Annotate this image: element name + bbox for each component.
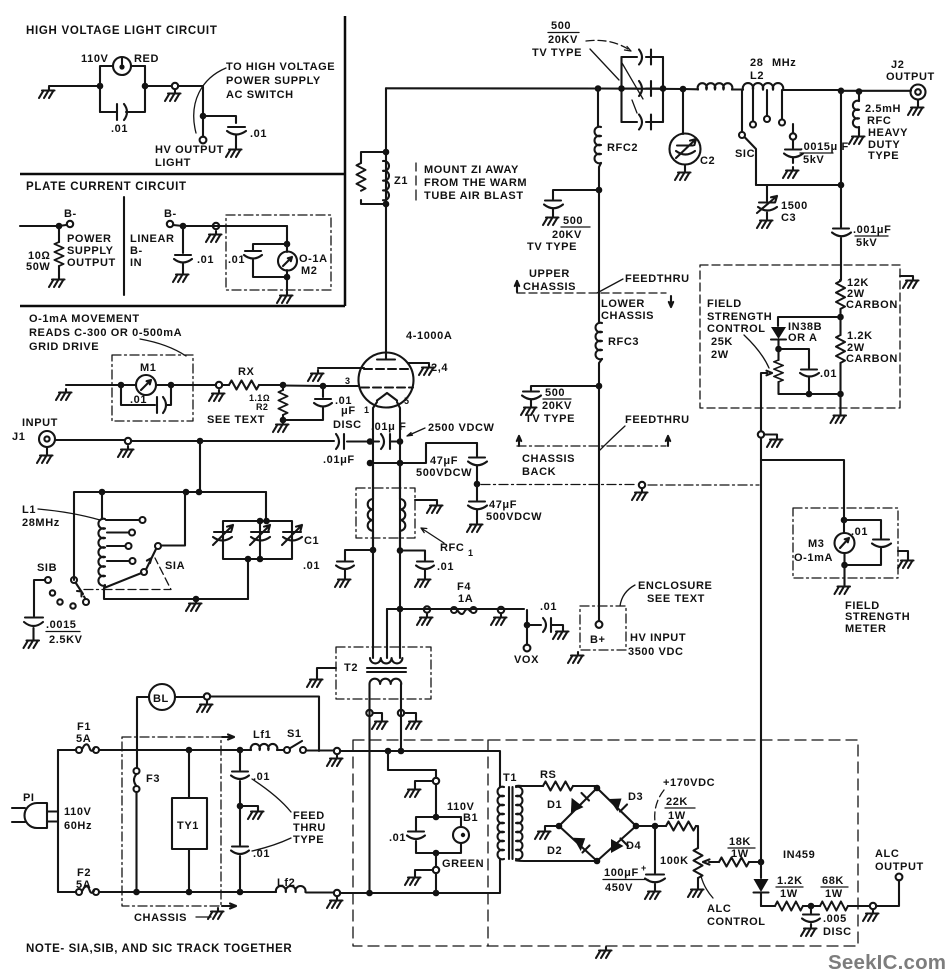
capacitor .01 (filament bypass right) <box>400 551 454 577</box>
node <box>397 460 404 467</box>
label LINEAR B- IN <box>130 233 175 269</box>
svg-text:100K: 100K <box>660 855 689 867</box>
node <box>118 382 125 389</box>
node bridge top <box>594 785 601 792</box>
wire <box>286 226 288 244</box>
svg-text:1: 1 <box>468 548 473 558</box>
svg-text:25K: 25K <box>711 336 733 348</box>
ground <box>596 947 612 958</box>
svg-text:Z1: Z1 <box>394 175 408 187</box>
wire <box>49 85 100 87</box>
svg-text:UPPER: UPPER <box>529 268 570 280</box>
ground <box>197 701 213 712</box>
svg-text:R2: R2 <box>256 402 268 412</box>
meter M1 <box>121 362 171 395</box>
svg-text:TV TYPE: TV TYPE <box>525 413 575 425</box>
ground <box>467 521 483 532</box>
feedthru terminal <box>415 778 439 786</box>
svg-text:FEEDTHRU: FEEDTHRU <box>625 273 690 285</box>
capacitor .01 (HV output) <box>227 127 267 146</box>
ground <box>327 755 343 766</box>
ground <box>173 271 189 282</box>
chassis-back boundary (dash-dot) <box>481 484 759 487</box>
svg-text:GRID DRIVE: GRID DRIVE <box>29 341 99 353</box>
field strength control box (dashed) <box>700 265 900 408</box>
capacitor .01 feedthru lower <box>231 806 270 892</box>
node <box>775 346 782 353</box>
ground <box>568 652 584 663</box>
power supply enclosure (dashed box) <box>353 740 858 946</box>
svg-text:OUTPUT: OUTPUT <box>67 257 116 269</box>
lamp B1 110V GREEN <box>436 801 484 870</box>
svg-text:4-1000A: 4-1000A <box>406 330 452 342</box>
svg-text:METER: METER <box>845 623 887 635</box>
wire to feedthru <box>145 85 171 87</box>
svg-text:B1: B1 <box>463 812 478 824</box>
capacitor .01 (meter shunt) <box>228 244 287 277</box>
ground <box>675 169 691 180</box>
node <box>142 83 149 90</box>
ground <box>801 925 817 936</box>
svg-text:1A: 1A <box>458 593 473 605</box>
svg-text:60Hz: 60Hz <box>64 820 92 832</box>
svg-text:SEE TEXT: SEE TEXT <box>647 593 705 605</box>
svg-text:CONTROL: CONTROL <box>707 916 766 928</box>
wire cathode return <box>370 443 477 463</box>
capacitor .0015 2.5KV <box>24 580 83 646</box>
ground <box>277 292 293 303</box>
svg-text:5kV: 5kV <box>856 237 877 249</box>
ground <box>419 364 435 375</box>
capacitor .005 DISC <box>802 906 852 938</box>
terminal VOX <box>514 625 539 666</box>
svg-text:5A: 5A <box>76 733 91 745</box>
svg-text:L1: L1 <box>22 504 36 516</box>
svg-text:VOX: VOX <box>514 654 539 666</box>
wire lamp branch <box>388 751 436 778</box>
svg-text:C2: C2 <box>700 155 715 167</box>
ground <box>307 676 323 687</box>
circuit breaker F3 <box>134 768 161 892</box>
svg-text:2W: 2W <box>711 349 729 361</box>
node <box>99 489 106 496</box>
svg-text:B+: B+ <box>590 634 606 646</box>
ground <box>165 90 181 101</box>
node <box>193 596 200 603</box>
ground <box>908 104 924 115</box>
switch S1A <box>104 492 185 590</box>
svg-text:C1: C1 <box>304 535 319 547</box>
ground <box>417 614 433 625</box>
node <box>320 383 327 390</box>
wire tank feed <box>74 492 266 580</box>
label FIELD STRENGTH CONTROL 25K 2W <box>707 298 772 368</box>
inductor L1 28MHz <box>22 492 105 593</box>
svg-text:.005: .005 <box>823 913 847 925</box>
terminal B+ <box>590 607 606 646</box>
wire filament lead 5 <box>397 402 400 550</box>
svg-text:SIA: SIA <box>165 560 185 572</box>
svg-text:FROM THE WARM: FROM THE WARM <box>424 177 527 189</box>
svg-text:GREEN: GREEN <box>442 858 484 870</box>
diode D3 <box>609 791 643 812</box>
svg-text:CHASSIS: CHASSIS <box>522 453 575 465</box>
T2 primary winding <box>370 679 402 710</box>
svg-text:μF: μF <box>341 405 356 417</box>
wire to field strength meter <box>761 438 844 517</box>
svg-text:Lf2: Lf2 <box>277 877 295 889</box>
wire RFC2-RFC3 column <box>598 190 600 323</box>
node <box>838 182 845 189</box>
wire RFC1 shield ground <box>415 500 437 502</box>
capacitor .01 feedthru upper <box>231 750 270 806</box>
note 0-1mA MOVEMENT <box>29 313 186 356</box>
svg-text:110V: 110V <box>81 53 109 65</box>
svg-text:20KV: 20KV <box>552 229 582 241</box>
svg-text:20KV: 20KV <box>542 400 572 412</box>
svg-text:F3: F3 <box>146 773 160 785</box>
svg-text:5: 5 <box>404 396 409 406</box>
wire <box>203 116 236 123</box>
svg-text:OR A: OR A <box>788 332 818 344</box>
svg-text:1500: 1500 <box>781 200 808 212</box>
feedthru terminal <box>213 223 219 229</box>
svg-text:STRENGTH: STRENGTH <box>707 311 772 323</box>
svg-text:2500 VDCW: 2500 VDCW <box>428 422 495 434</box>
capacitor .001uF 5kV <box>832 185 891 280</box>
svg-text:BL: BL <box>153 693 169 705</box>
svg-text:INPUT: INPUT <box>22 417 58 429</box>
svg-text:1.2K: 1.2K <box>847 330 873 342</box>
rf choke RFC3 <box>596 323 640 386</box>
node <box>398 748 405 755</box>
switch S1 <box>284 728 334 753</box>
svg-text:TY1: TY1 <box>177 820 199 832</box>
svg-text:THRU: THRU <box>293 822 326 834</box>
line filter Lf1 <box>240 729 284 750</box>
node <box>97 83 104 90</box>
svg-text:.001μF: .001μF <box>853 224 891 236</box>
svg-text:RFC3: RFC3 <box>608 336 639 348</box>
svg-text:CARBON: CARBON <box>846 299 898 311</box>
capacitor .01 (lamp bypass) <box>389 817 436 853</box>
variable capacitor bank C1 <box>213 492 319 599</box>
diode 1N459 <box>754 849 816 906</box>
svg-text:RFC2: RFC2 <box>607 142 638 154</box>
svg-text:.01: .01 <box>389 832 406 844</box>
ground <box>543 214 559 225</box>
capacitor .01 (filament bypass left) <box>303 550 373 576</box>
wire BL to line <box>175 697 319 752</box>
rf choke RFC2 <box>595 85 639 190</box>
node <box>680 86 687 93</box>
ground <box>783 167 799 178</box>
capacitor 47uF 500VDCW lower <box>468 484 542 523</box>
svg-text:LINEAR: LINEAR <box>130 233 175 245</box>
svg-text:O-1mA MOVEMENT: O-1mA MOVEMENT <box>29 313 140 325</box>
wire <box>183 225 287 227</box>
potentiometer 100K ALC control <box>660 842 719 898</box>
svg-text:100μF: 100μF <box>604 867 639 879</box>
connector J2 OUTPUT <box>886 59 935 104</box>
ground <box>208 908 224 919</box>
label FIELD STRENGTH METER <box>845 600 910 635</box>
node bridge left <box>556 823 563 830</box>
svg-text:D4: D4 <box>626 840 642 852</box>
svg-text:.01: .01 <box>303 560 320 572</box>
svg-text:HIGH VOLTAGE LIGHT CIRCUIT: HIGH VOLTAGE LIGHT CIRCUIT <box>26 25 218 37</box>
svg-text:+170VDC: +170VDC <box>663 777 715 789</box>
wire line live <box>340 751 500 786</box>
label HV INPUT 3500VDC <box>628 632 686 658</box>
svg-text:22K: 22K <box>666 796 688 808</box>
svg-text:F4: F4 <box>457 581 471 593</box>
svg-text:IN459: IN459 <box>783 849 815 861</box>
svg-text:B-: B- <box>130 245 143 257</box>
svg-text:S1: S1 <box>287 728 302 740</box>
ground <box>900 276 919 288</box>
svg-text:110V: 110V <box>64 806 92 818</box>
HV output light terminal <box>155 137 224 169</box>
node <box>808 903 815 910</box>
node <box>397 438 404 445</box>
node <box>197 438 204 445</box>
svg-text:F2: F2 <box>77 867 91 879</box>
resistor 68K 1W <box>811 875 869 911</box>
wire pin3 screen to ground <box>318 367 364 369</box>
ground <box>688 886 704 897</box>
svg-text:18K: 18K <box>729 836 751 848</box>
wire input line <box>55 440 200 441</box>
wire <box>843 565 845 583</box>
svg-text:.01: .01 <box>111 123 128 135</box>
svg-text:TV TYPE: TV TYPE <box>532 47 582 59</box>
wire filament lead 1 <box>373 402 377 550</box>
ground M3 shield <box>898 551 914 568</box>
svg-text:28MHz: 28MHz <box>22 517 60 529</box>
frame: control-circuits panel border <box>20 16 345 306</box>
ground <box>49 276 65 287</box>
svg-text:CHASSIS: CHASSIS <box>601 310 654 322</box>
T2 secondary winding <box>370 550 402 663</box>
svg-text:CARBON: CARBON <box>846 353 898 365</box>
resistor 18K 1W <box>719 836 761 867</box>
svg-text:3: 3 <box>345 376 350 386</box>
node <box>596 187 603 194</box>
ground <box>186 600 202 611</box>
svg-text:LIGHT: LIGHT <box>155 157 191 169</box>
svg-text:POWER: POWER <box>67 233 112 245</box>
svg-text:J1: J1 <box>12 431 25 443</box>
svg-text:ALC: ALC <box>875 848 899 860</box>
svg-text:3500 VDC: 3500 VDC <box>628 646 684 658</box>
wire line neutral <box>340 860 500 893</box>
svg-text:500: 500 <box>563 215 583 227</box>
node <box>186 889 193 896</box>
svg-text:.01: .01 <box>820 368 837 380</box>
chassis-back boundary line (dash-dot) <box>517 436 670 446</box>
svg-text:500VDCW: 500VDCW <box>486 511 542 523</box>
resistor 10 ohm 50W <box>26 226 64 276</box>
svg-text:TUBE AIR BLAST: TUBE AIR BLAST <box>424 190 524 202</box>
terminal ALC OUTPUT <box>875 848 924 906</box>
svg-text:CHASSIS: CHASSIS <box>134 912 187 924</box>
label ALC CONTROL <box>707 903 766 928</box>
svg-text:PI: PI <box>23 792 35 804</box>
node <box>183 489 190 496</box>
terminal B- <box>59 208 77 227</box>
capacitor .01 (M1 shunt) <box>121 385 171 413</box>
svg-text:D1: D1 <box>547 799 562 811</box>
wire center tap to fuse <box>387 609 527 625</box>
ground <box>849 133 865 144</box>
meter box M2 (dashed) <box>226 215 331 290</box>
node <box>652 823 659 830</box>
ground <box>863 910 879 921</box>
svg-text:1W: 1W <box>731 848 749 860</box>
ground <box>835 583 851 594</box>
ground <box>240 806 264 819</box>
ground <box>521 404 537 415</box>
wire <box>178 86 203 137</box>
terminal B- linear <box>164 208 183 227</box>
resistor RX <box>222 366 283 390</box>
node <box>200 113 207 120</box>
capacitor 47uF 500VDCW upper <box>416 443 487 484</box>
wire plate lead <box>385 88 387 352</box>
filament transformer T2 (dashed box) <box>336 647 431 699</box>
svg-text:TYPE: TYPE <box>868 150 899 162</box>
ground <box>415 576 431 587</box>
wire grid line <box>283 384 359 387</box>
svg-text:1W: 1W <box>780 888 798 900</box>
tube 4-1000A <box>345 330 452 415</box>
label FEEDTHRU lower <box>600 414 690 450</box>
svg-text:OUTPUT: OUTPUT <box>875 861 924 873</box>
svg-text:M1: M1 <box>140 362 156 374</box>
svg-text:5A: 5A <box>76 879 91 891</box>
svg-text:50W: 50W <box>26 261 50 273</box>
node <box>433 850 440 857</box>
resistor 22K 1W <box>665 796 698 842</box>
svg-text:1.2K: 1.2K <box>777 875 803 887</box>
ground <box>308 370 324 381</box>
node <box>280 382 287 389</box>
svg-text:.01: .01 <box>130 394 147 406</box>
feedthru terminal <box>334 748 340 754</box>
node <box>280 417 287 424</box>
feedthru terminal <box>415 867 439 874</box>
node <box>524 622 531 629</box>
ground <box>273 421 289 432</box>
transformer T1 <box>498 772 597 861</box>
svg-text:SIC: SIC <box>735 148 755 160</box>
ground <box>553 628 569 639</box>
node <box>56 223 63 230</box>
coil RFC1 left winding <box>368 463 373 550</box>
wire T2 shield ground <box>317 668 336 676</box>
svg-text:BACK: BACK <box>522 466 556 478</box>
svg-text:RED: RED <box>134 53 159 65</box>
node <box>433 890 440 897</box>
fuse F4 1A <box>451 581 477 614</box>
diode 1N38B <box>771 317 841 349</box>
label FEED THRU TYPE <box>252 779 326 851</box>
resistor 12K 2W carbon <box>836 277 898 317</box>
label +170VDC <box>655 777 716 822</box>
ground <box>39 87 55 98</box>
wire <box>435 873 437 893</box>
capacitor bank 500 20KV (3x plate tuning) <box>622 50 664 130</box>
svg-text:.01: .01 <box>197 254 214 266</box>
capacitor 500 20KV TV TYPE (plate blocking mid) <box>527 190 599 253</box>
node <box>186 747 193 754</box>
node <box>856 88 863 95</box>
ground <box>767 436 783 447</box>
rf choke RFC1 (dashed box) <box>356 488 415 538</box>
node <box>433 814 440 821</box>
svg-text:D3: D3 <box>628 791 643 803</box>
meter box M1 (dashed) <box>112 355 193 421</box>
rf choke 2.5mH heavy duty <box>853 92 908 163</box>
node <box>841 517 848 524</box>
capacitor .01uF 2500VDCW (filament coupling) <box>370 421 495 449</box>
node <box>366 890 373 897</box>
svg-text:OUTPUT: OUTPUT <box>886 71 935 83</box>
node <box>758 859 765 866</box>
ground <box>56 389 72 400</box>
svg-text:MHz: MHz <box>772 57 796 69</box>
svg-text:J2: J2 <box>891 59 904 71</box>
svg-text:.01: .01 <box>250 128 267 140</box>
svg-text:RFC: RFC <box>440 542 464 554</box>
wire ALC sense line <box>760 460 762 862</box>
wire <box>435 784 437 817</box>
feedthru terminal <box>424 606 430 612</box>
svg-text:L2: L2 <box>750 70 764 82</box>
capacitor .01uF DISC (grid bypass) <box>283 386 362 431</box>
inductor L2 28MHz <box>698 57 841 90</box>
note ENCLOSURE SEE TEXT <box>620 580 712 606</box>
svg-text:28: 28 <box>750 57 763 69</box>
svg-text:20KV: 20KV <box>548 34 578 46</box>
wire plate top run <box>386 88 698 89</box>
svg-text:68K: 68K <box>822 875 844 887</box>
svg-text:.0015: .0015 <box>46 619 77 631</box>
ground <box>645 888 661 899</box>
ground <box>37 452 53 463</box>
title HIGH VOLTAGE LIGHT CIRCUIT <box>26 25 218 37</box>
note MOUNT Z1 AWAY <box>416 163 527 202</box>
svg-text:2.5mH: 2.5mH <box>865 103 901 115</box>
svg-text:47μF: 47μF <box>430 455 458 467</box>
node <box>618 85 625 92</box>
capacitor 500 20KV TV TYPE (lower) <box>522 386 599 425</box>
capacitor .01uF (input coupling) <box>323 434 355 466</box>
node <box>284 274 291 281</box>
ground <box>24 637 40 648</box>
svg-text:CONTROL: CONTROL <box>707 323 766 335</box>
parasitic suppressor Z1 <box>357 149 409 208</box>
node <box>837 391 844 398</box>
ground <box>118 446 134 457</box>
node <box>370 547 377 554</box>
capacitor 100uF 450V <box>603 826 665 894</box>
svg-text:D2: D2 <box>547 845 562 857</box>
diode D1 <box>547 793 589 813</box>
svg-text:MOUNT ZI AWAY: MOUNT ZI AWAY <box>424 164 519 176</box>
diode D2 <box>547 838 590 857</box>
